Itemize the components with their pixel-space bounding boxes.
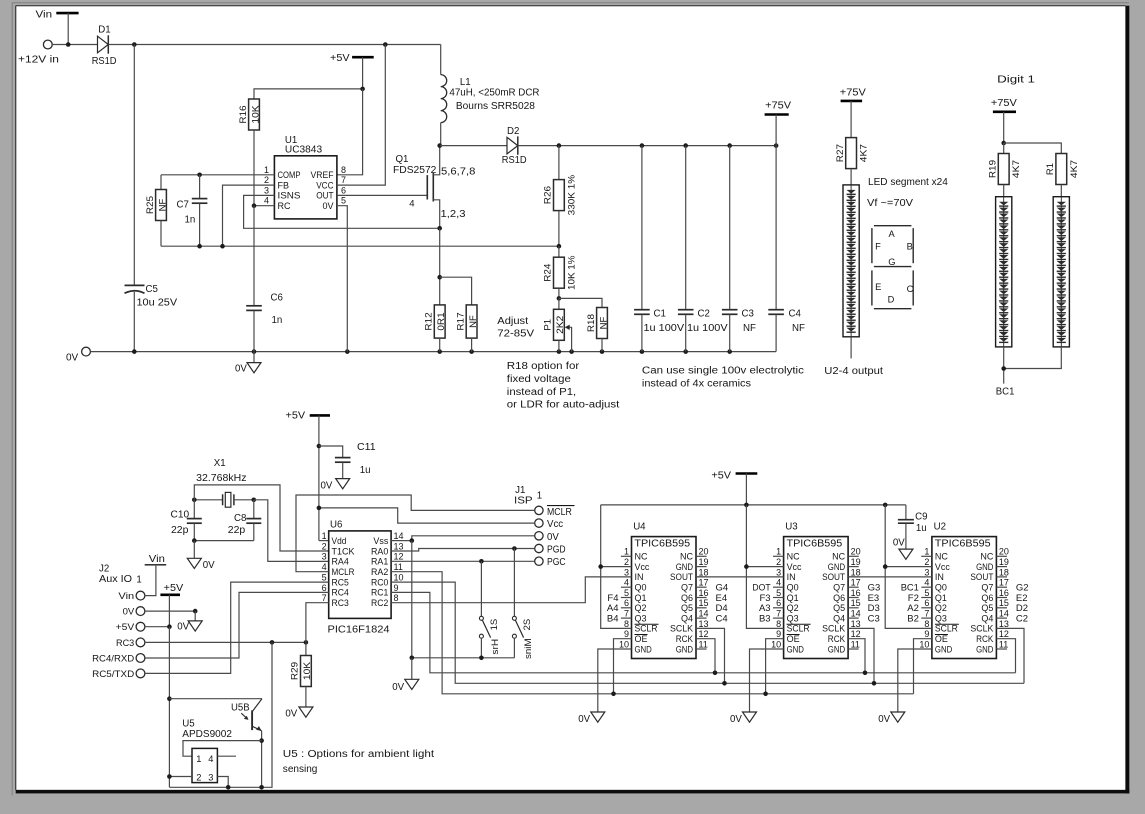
svg-text:Q5: Q5: [833, 603, 845, 613]
svg-text:1: 1: [537, 491, 542, 502]
svg-text:10: 10: [919, 639, 929, 649]
svg-text:4: 4: [264, 196, 269, 206]
junction X1 right: [252, 498, 257, 503]
svg-text:5: 5: [322, 573, 327, 583]
svg-text:U2-4 output: U2-4 output: [824, 366, 883, 377]
svg-text:RC: RC: [278, 201, 291, 211]
junction +5V dist U3: [744, 503, 749, 508]
inductor L1: [440, 45, 442, 75]
ground symbol 0V (R29): [299, 707, 313, 717]
svg-text:U6: U6: [330, 520, 342, 531]
transistor Q1 FDS2572: [426, 175, 428, 199]
wire: U5B emitter down: [261, 731, 263, 788]
capacitor C6: [253, 206, 255, 306]
svg-text:R1: R1: [1045, 163, 1056, 175]
svg-text:U4: U4: [633, 522, 646, 533]
svg-text:C5: C5: [146, 284, 158, 295]
svg-text:4K7: 4K7: [859, 144, 870, 162]
wire: Vss to ground symbol: [411, 658, 413, 680]
svg-text:PGC: PGC: [547, 557, 566, 568]
svg-text:D2: D2: [507, 126, 519, 137]
wire: RA2 bus: [391, 572, 913, 694]
svg-text:13: 13: [394, 541, 404, 551]
svg-text:17: 17: [699, 578, 709, 588]
junction U4 Vcc: [598, 564, 603, 569]
wire: input to D1: [52, 44, 97, 46]
svg-text:0V: 0V: [235, 364, 247, 375]
junction +75V rail at C4/+75V: [774, 143, 779, 148]
svg-text:16: 16: [699, 588, 709, 598]
wire: U5 pin2 to +5V line: [169, 776, 192, 778]
svg-text:0V: 0V: [893, 537, 905, 548]
junction switch gnd at Vss: [410, 656, 415, 661]
resistor R12: [434, 305, 445, 338]
svg-text:Q6: Q6: [833, 593, 845, 603]
svg-text:18: 18: [699, 567, 709, 577]
wire: U5 pin3 down: [217, 777, 228, 788]
svg-text:R17: R17: [455, 312, 466, 330]
svg-text:B3: B3: [759, 613, 771, 624]
svg-text:sensing: sensing: [283, 764, 318, 775]
frame: right border (thick): [1125, 6, 1129, 794]
ground symbol 0V (Vss): [405, 679, 419, 689]
svg-text:B4: B4: [607, 613, 619, 624]
svg-text:or LDR for auto-adjust: or LDR for auto-adjust: [507, 400, 620, 411]
junction L1/D2/Q1 drain: [437, 143, 442, 148]
svg-text:0V: 0V: [578, 714, 590, 725]
capacitor C10: [193, 500, 195, 519]
svg-text:MCLR: MCLR: [332, 567, 355, 577]
J2 pin circle RC3: [136, 638, 145, 647]
svg-text:D1: D1: [98, 25, 110, 36]
svg-text:RCK: RCK: [976, 634, 993, 644]
wire: U3 RCK to RC1 bus: [848, 639, 865, 673]
svg-text:RA1: RA1: [371, 557, 388, 567]
svg-text:13: 13: [851, 619, 861, 629]
svg-text:APDS9002: APDS9002: [182, 729, 232, 740]
svg-text:ISP: ISP: [514, 495, 533, 506]
wire: OUT pin6 to Q1 gate: [337, 194, 427, 196]
svg-text:RA4: RA4: [332, 557, 349, 567]
junction switch gnd at S1: [479, 656, 484, 661]
wire: R16 top to +5V junction: [254, 89, 363, 99]
wire: R19 to column: [1003, 185, 1005, 197]
J2 pin circle +5V: [136, 622, 145, 631]
svg-text:Q6: Q6: [981, 593, 993, 603]
junction 0V rail at U1 pin5: [345, 349, 350, 354]
svg-text:Q5: Q5: [981, 603, 993, 613]
svg-text:R18 option for: R18 option for: [507, 361, 580, 372]
svg-text:7: 7: [341, 175, 346, 185]
svg-text:14: 14: [999, 609, 1009, 619]
wire: FB pin2 down to feedback node: [223, 185, 275, 246]
op-amp U1 UC3843 box: [274, 156, 337, 219]
wire: Q1 source down to R12: [439, 228, 441, 305]
svg-text:15: 15: [999, 598, 1009, 608]
junction 0V rail at R12: [437, 349, 442, 354]
wire: P1 bottom to 0V: [558, 340, 560, 351]
wire: 0V ground rail: [90, 351, 776, 353]
svg-text:U5: U5: [182, 719, 194, 730]
svg-text:Q2: Q2: [935, 603, 947, 613]
svg-text:3: 3: [322, 552, 327, 562]
J1 pin circle MCLR: [535, 506, 543, 514]
junction RC3 at R29: [304, 640, 309, 645]
wire: 0V pin5 to ground rail: [337, 206, 347, 352]
svg-text:OE: OE: [635, 634, 648, 644]
wire: RA1 to PGC: [391, 560, 535, 562]
crystal X1: [194, 499, 222, 501]
svg-text:R18: R18: [586, 314, 597, 332]
svg-text:C4: C4: [716, 613, 728, 624]
wire: RC pin4 to R16/C6 line: [254, 205, 274, 207]
svg-text:srH: srH: [490, 639, 501, 655]
svg-text:RC5/TXD: RC5/TXD: [92, 669, 134, 680]
svg-text:Vin: Vin: [36, 10, 53, 21]
svg-text:19: 19: [699, 557, 709, 567]
ground symbol 0V (U4): [591, 712, 605, 722]
svg-text:7: 7: [924, 609, 929, 619]
svg-text:5: 5: [924, 588, 929, 598]
svg-text:10K: 10K: [250, 105, 261, 124]
U2 pin stubs: [921, 555, 932, 557]
svg-text:4: 4: [776, 578, 781, 588]
svg-text:0V: 0V: [123, 607, 135, 618]
svg-text:Q7: Q7: [681, 583, 693, 593]
svg-text:NF: NF: [157, 198, 168, 211]
svg-text:IN: IN: [635, 572, 644, 582]
junction U5 bottom at emitter: [259, 785, 264, 790]
svg-text:3: 3: [776, 567, 781, 577]
svg-text:2: 2: [264, 175, 269, 185]
svg-text:0V: 0V: [66, 353, 79, 364]
J1 pin circle Vcc: [535, 519, 543, 527]
svg-text:T1CK: T1CK: [332, 546, 355, 556]
terminal +12V in: [43, 40, 52, 49]
svg-text:1u: 1u: [916, 523, 927, 534]
svg-text:5,6,7,8: 5,6,7,8: [441, 166, 475, 177]
wire: J2 0V to ground: [145, 610, 195, 612]
svg-text:6: 6: [624, 598, 629, 608]
svg-text:SCLK: SCLK: [970, 624, 993, 634]
capacitor C11: [319, 446, 343, 457]
junction U5 pin2: [167, 774, 172, 779]
svg-text:19: 19: [999, 557, 1009, 567]
svg-text:1u 100V: 1u 100V: [644, 323, 685, 334]
svg-text:1u 100V: 1u 100V: [687, 323, 728, 334]
wire: to crystal ground: [193, 541, 195, 559]
ground symbol 0V (J2): [194, 611, 196, 621]
svg-text:MCLR: MCLR: [547, 507, 572, 518]
junction PGC at S1: [479, 559, 484, 564]
svg-text:12: 12: [999, 629, 1009, 639]
capacitor C5 (electrolytic): [125, 284, 145, 286]
wire: R26 bottom to node: [558, 211, 560, 247]
frame: bottom border (thick): [16, 790, 1130, 794]
svg-text:IN: IN: [787, 572, 796, 582]
LED column digit right: [1053, 197, 1069, 347]
junction U2 Vcc: [883, 564, 888, 569]
svg-text:1: 1: [264, 165, 269, 175]
svg-text:RC3: RC3: [116, 638, 134, 649]
svg-text:0V: 0V: [321, 480, 333, 491]
junction 0V rail at C3: [727, 349, 732, 354]
svg-text:14: 14: [851, 609, 861, 619]
svg-text:GND: GND: [787, 644, 805, 654]
svg-text:2S: 2S: [522, 619, 533, 631]
junction COMP at C7 top: [197, 173, 202, 178]
svg-text:GND: GND: [676, 644, 694, 654]
svg-text:Digit 1: Digit 1: [997, 75, 1035, 86]
wire: U4 OE to RA2 bus: [614, 639, 632, 694]
svg-text:RS1D: RS1D: [92, 56, 117, 67]
capacitor C3: [729, 146, 731, 310]
svg-text:SCLR: SCLR: [787, 624, 810, 634]
wire: R27 to LED column: [850, 169, 852, 185]
svg-text:9: 9: [394, 583, 399, 593]
svg-text:+75V: +75V: [765, 101, 791, 112]
svg-text:RCK: RCK: [828, 634, 845, 644]
wire: L1 out to D2: [440, 145, 507, 147]
junction RC pin4: [252, 203, 257, 208]
svg-text:2: 2: [322, 541, 327, 551]
svg-text:RS1D: RS1D: [502, 155, 527, 166]
svg-text:Q6: Q6: [681, 593, 693, 603]
diode D2: [507, 137, 518, 154]
svg-text:+5V: +5V: [164, 583, 184, 594]
wire: U4 RCK to RC1 bus: [696, 639, 715, 673]
wire: J2 TXD to RC5 pin5: [145, 582, 329, 673]
ground symbol 0V (X1): [187, 558, 201, 568]
svg-text:RC4: RC4: [332, 588, 349, 598]
svg-text:NC: NC: [680, 552, 693, 562]
svg-text:Vcc: Vcc: [935, 562, 950, 572]
wire: switch common to 0V: [412, 657, 515, 659]
junction Vss: [410, 538, 415, 543]
svg-text:12: 12: [394, 552, 404, 562]
svg-text:+75V: +75V: [840, 88, 866, 99]
J2 pin circle 0V: [136, 607, 145, 616]
svg-text:P1: P1: [543, 319, 554, 331]
svg-text:8: 8: [394, 593, 399, 603]
junction +12V at C5 branch: [132, 42, 137, 47]
svg-text:13: 13: [699, 619, 709, 629]
svg-text:0V: 0V: [322, 201, 333, 211]
svg-text:GND: GND: [676, 562, 694, 572]
7-segment icon segment C: [912, 270, 914, 305]
junction 0V rail at R17: [469, 349, 474, 354]
junction feedback at C7 bottom: [197, 244, 202, 249]
wire: Vss down to switch gnd: [411, 541, 413, 658]
svg-text:UC3843: UC3843: [285, 145, 322, 156]
svg-text:0V: 0V: [285, 708, 297, 719]
junction 0V rail at P1 wiper: [569, 349, 574, 354]
ground symbol 0V (under C6): [253, 352, 255, 363]
svg-text:IN: IN: [935, 572, 944, 582]
svg-text:D: D: [888, 295, 895, 305]
svg-text:NC: NC: [832, 552, 845, 562]
svg-text:11: 11: [999, 639, 1008, 649]
svg-text:4: 4: [924, 578, 929, 588]
wire: R16 bottom to RC node: [253, 130, 255, 206]
shift register U2 box: [932, 537, 997, 659]
svg-text:SCLK: SCLK: [670, 624, 693, 634]
svg-text:15: 15: [851, 598, 861, 608]
7-segment icon segment G: [874, 266, 912, 268]
svg-text:RC3: RC3: [332, 598, 349, 608]
svg-text:L1: L1: [460, 77, 471, 88]
svg-text:6: 6: [924, 598, 929, 608]
svg-text:2: 2: [776, 557, 781, 567]
svg-text:5: 5: [776, 588, 781, 598]
svg-text:NF: NF: [468, 315, 479, 328]
svg-text:LED segment x24: LED segment x24: [868, 177, 948, 188]
svg-text:RC4/RXD: RC4/RXD: [92, 653, 134, 664]
svg-text:4K7: 4K7: [1069, 160, 1080, 178]
svg-text:9: 9: [924, 629, 929, 639]
svg-text:1: 1: [776, 547, 781, 557]
svg-text:7: 7: [776, 609, 781, 619]
wire: X1 to RA4 pin3: [254, 500, 329, 562]
svg-text:Q3: Q3: [787, 613, 799, 623]
svg-text:2: 2: [924, 557, 929, 567]
svg-text:4: 4: [208, 754, 213, 764]
capacitor C1: [641, 146, 643, 310]
microcontroller U6 box: [329, 531, 391, 619]
svg-text:X1: X1: [214, 458, 226, 469]
wire: ISNS pin3 loop to sense node: [244, 195, 440, 228]
wire: U3 GND to 0V: [750, 649, 784, 712]
svg-text:C10: C10: [171, 510, 190, 521]
svg-text:TPIC6B595: TPIC6B595: [634, 539, 690, 550]
resistor R29: [305, 642, 307, 655]
svg-text:RC0: RC0: [371, 577, 388, 587]
junction Q1 source / ISNS: [437, 226, 442, 231]
wire: COMP pin1 to R25/C7: [161, 174, 274, 176]
resistor R25: [160, 175, 162, 190]
svg-text:+75V: +75V: [991, 98, 1017, 109]
svg-text:NC: NC: [787, 552, 800, 562]
svg-text:C2: C2: [1016, 613, 1028, 624]
resistor R17: [466, 305, 477, 338]
svg-text:B2: B2: [907, 613, 919, 624]
svg-text:6: 6: [776, 598, 781, 608]
svg-text:72-85V: 72-85V: [497, 328, 534, 339]
7-segment icon segment F: [871, 228, 873, 263]
svg-text:R19: R19: [988, 160, 999, 178]
wire: RC2 to U4 IN: [391, 577, 631, 603]
svg-text:10u 25V: 10u 25V: [137, 298, 178, 309]
wire: X1 to T1CK pin2: [194, 485, 328, 551]
svg-text:10K: 10K: [302, 661, 313, 680]
svg-text:0V: 0V: [730, 714, 742, 725]
svg-text:32.768kHz: 32.768kHz: [196, 473, 246, 484]
svg-text:20: 20: [699, 547, 709, 557]
svg-text:RC2: RC2: [371, 598, 388, 608]
svg-text:1S: 1S: [489, 619, 500, 631]
svg-text:G: G: [888, 257, 895, 267]
resistor R24: [554, 257, 565, 288]
svg-text:Q1: Q1: [635, 593, 647, 603]
svg-text:VCC: VCC: [316, 180, 334, 190]
svg-text:8: 8: [924, 619, 929, 629]
ground symbol 0V (U2): [891, 712, 905, 722]
svg-text:Q1: Q1: [787, 593, 799, 603]
J1 pin circle PGD: [535, 544, 543, 552]
svg-text:10K 1%: 10K 1%: [566, 255, 577, 290]
resistor R16: [249, 99, 260, 130]
svg-text:4: 4: [409, 199, 414, 210]
svg-text:C3: C3: [868, 613, 880, 624]
svg-text:4K7: 4K7: [1011, 160, 1022, 178]
svg-text:Q0: Q0: [787, 583, 799, 593]
wire: RC3 to U6 pin7: [306, 603, 329, 643]
wire: +5V into U6 pin1 Vdd: [319, 540, 329, 542]
7-segment icon segment A: [874, 225, 912, 227]
svg-text:SOUT: SOUT: [670, 572, 693, 582]
junction J2 0V: [193, 609, 198, 614]
wire: U4 Vcc/SCLR from +5V: [601, 505, 632, 629]
svg-text:6: 6: [322, 583, 327, 593]
svg-text:GND: GND: [976, 562, 994, 572]
svg-text:FDS2572: FDS2572: [393, 165, 436, 176]
svg-text:1: 1: [322, 531, 327, 541]
wire: U4 SOUT to U3 IN: [696, 576, 784, 578]
svg-text:20: 20: [999, 547, 1009, 557]
7-segment icon segment E: [871, 270, 873, 305]
wire: J2 RXD to RC4 pin6: [145, 592, 329, 658]
wire: feedback node rail: [161, 245, 559, 247]
svg-text:F: F: [875, 242, 881, 252]
capacitor C9: [905, 505, 907, 520]
svg-text:RC5: RC5: [332, 577, 349, 587]
svg-text:E: E: [875, 282, 881, 292]
svg-text:sniM: sniM: [523, 638, 534, 659]
svg-text:GND: GND: [635, 644, 653, 654]
transistor U5B (photo): [251, 710, 253, 730]
sensor U5 box: [192, 748, 217, 782]
svg-text:7: 7: [322, 593, 327, 603]
svg-text:+5V: +5V: [330, 53, 350, 64]
junction 0V rail at P1: [557, 349, 562, 354]
junction Digit top: [1001, 141, 1006, 146]
svg-text:1: 1: [924, 547, 929, 557]
wire: U2 Vcc/SCLR from +5V: [885, 505, 932, 629]
svg-text:11: 11: [851, 639, 860, 649]
svg-text:15: 15: [699, 598, 709, 608]
junction U5B collector feed: [167, 696, 172, 701]
junction 0V rail at C5: [132, 349, 137, 354]
svg-text:Aux IO: Aux IO: [99, 574, 133, 585]
wire: RA0 to PGD: [391, 549, 535, 552]
J2 pin circle Vin: [136, 591, 145, 600]
LED segment column (x24): [843, 185, 859, 337]
svg-text:18: 18: [851, 567, 861, 577]
svg-text:RCK: RCK: [676, 634, 693, 644]
svg-text:14: 14: [394, 531, 404, 541]
svg-text:Vcc: Vcc: [787, 562, 802, 572]
svg-text:Q7: Q7: [833, 583, 845, 593]
svg-text:R24: R24: [543, 264, 554, 282]
svg-text:0V: 0V: [392, 682, 404, 693]
junction RA2 bus at U3: [763, 692, 768, 697]
wire: U3 OE to RA2 bus: [766, 639, 784, 694]
svg-text:12: 12: [851, 629, 861, 639]
LED column digit left: [996, 197, 1012, 347]
wire: U4 SCLK to RC0 bus: [696, 628, 725, 683]
svg-text:2: 2: [196, 773, 201, 783]
switch S2 (Mins): [513, 549, 515, 617]
